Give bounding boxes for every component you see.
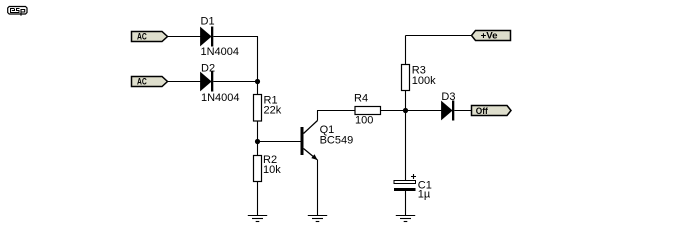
- resistor R4: [355, 107, 381, 115]
- wire AC2 to D2: [168, 81, 201, 83]
- svg-text:D2: D2: [201, 63, 215, 75]
- output tag Off: [472, 106, 512, 116]
- svg-text:100k: 100k: [412, 75, 436, 87]
- diode D2: [201, 72, 214, 92]
- power tag +Ve: [472, 30, 511, 40]
- wire +Ve rail top: [406, 35, 472, 37]
- input tag AC (top): [132, 31, 168, 41]
- svg-text:+Ve: +Ve: [481, 30, 498, 40]
- svg-text:Off: Off: [476, 106, 489, 116]
- svg-text:1N4004: 1N4004: [201, 92, 240, 104]
- diode D3: [442, 101, 455, 121]
- svg-text:BC549: BC549: [320, 134, 354, 146]
- wire D1 cathode to node A: [213, 36, 258, 38]
- capacitor C1: [394, 174, 416, 191]
- wire node B to Q1 base: [258, 141, 301, 143]
- wire C1 to ground: [405, 191, 407, 215]
- wire node A vertical (D1 row down to R1): [257, 37, 259, 95]
- ground (R2): [248, 216, 267, 222]
- wire Q1 collector up: [317, 111, 319, 121]
- ground (Q1 emitter): [308, 216, 327, 222]
- wire collector row to R4: [317, 110, 355, 112]
- svg-text:100: 100: [355, 114, 373, 126]
- resistor R1: [254, 95, 262, 122]
- svg-text:1N4004: 1N4004: [201, 46, 240, 58]
- wire D3 to Off tag: [454, 110, 471, 112]
- transistor Q1: [301, 121, 318, 161]
- resistor R2: [254, 156, 262, 182]
- junction node A: [255, 79, 260, 84]
- wire R3 to C1 (through node C): [405, 91, 407, 181]
- svg-text:R4: R4: [354, 93, 368, 105]
- junction node B (base divider): [255, 139, 260, 144]
- wire rail down to R3: [405, 36, 407, 65]
- resistor R3: [402, 65, 410, 91]
- svg-text:D3: D3: [441, 91, 455, 103]
- wire R4 to D3 anode (through node C): [381, 110, 442, 112]
- svg-text:AC: AC: [137, 31, 147, 41]
- wire AC1 to D1: [168, 36, 201, 38]
- input tag AC (bottom): [132, 76, 168, 86]
- ground (C1): [396, 216, 415, 222]
- svg-text:1µ: 1µ: [418, 189, 431, 201]
- wire Q1 emitter to ground: [317, 160, 319, 216]
- svg-text:10k: 10k: [263, 164, 281, 176]
- esp logo: [8, 7, 27, 16]
- wire R1 to node B: [257, 121, 259, 156]
- svg-text:22k: 22k: [264, 105, 282, 117]
- svg-text:D1: D1: [201, 16, 215, 28]
- diode D1: [201, 27, 214, 47]
- wire D2 cathode to node A: [213, 81, 257, 83]
- junction node C: [403, 108, 408, 113]
- wire R2 to ground: [257, 182, 259, 216]
- svg-text:AC: AC: [137, 76, 147, 86]
